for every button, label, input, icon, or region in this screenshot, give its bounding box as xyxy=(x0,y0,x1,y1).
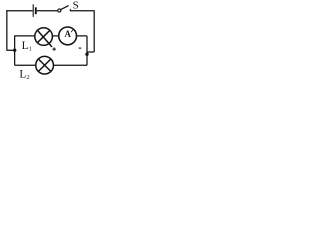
wire left side down to junction xyxy=(6,10,13,50)
battery B xyxy=(33,4,36,17)
wire L1 to ammeter xyxy=(52,35,59,37)
plus polarity mark xyxy=(52,47,56,51)
junction dot left xyxy=(13,49,16,52)
wire top-right, right side and jog to junction xyxy=(70,10,94,52)
switch S xyxy=(58,6,71,12)
lamp L1 xyxy=(35,28,53,47)
minus polarity mark xyxy=(79,47,82,49)
svg-text:A: A xyxy=(65,29,71,40)
svg-text:S: S xyxy=(73,0,79,11)
ammeter U1 xyxy=(59,27,77,45)
wire top-left segment xyxy=(6,10,32,12)
junction dot right xyxy=(85,53,88,56)
wire ammeter right and right branch down to L2 xyxy=(54,36,88,65)
wire left branch: L1 lead, vertical, L2 lead xyxy=(15,35,36,65)
lamp L2 xyxy=(36,56,54,74)
wire battery to switch xyxy=(37,10,58,12)
